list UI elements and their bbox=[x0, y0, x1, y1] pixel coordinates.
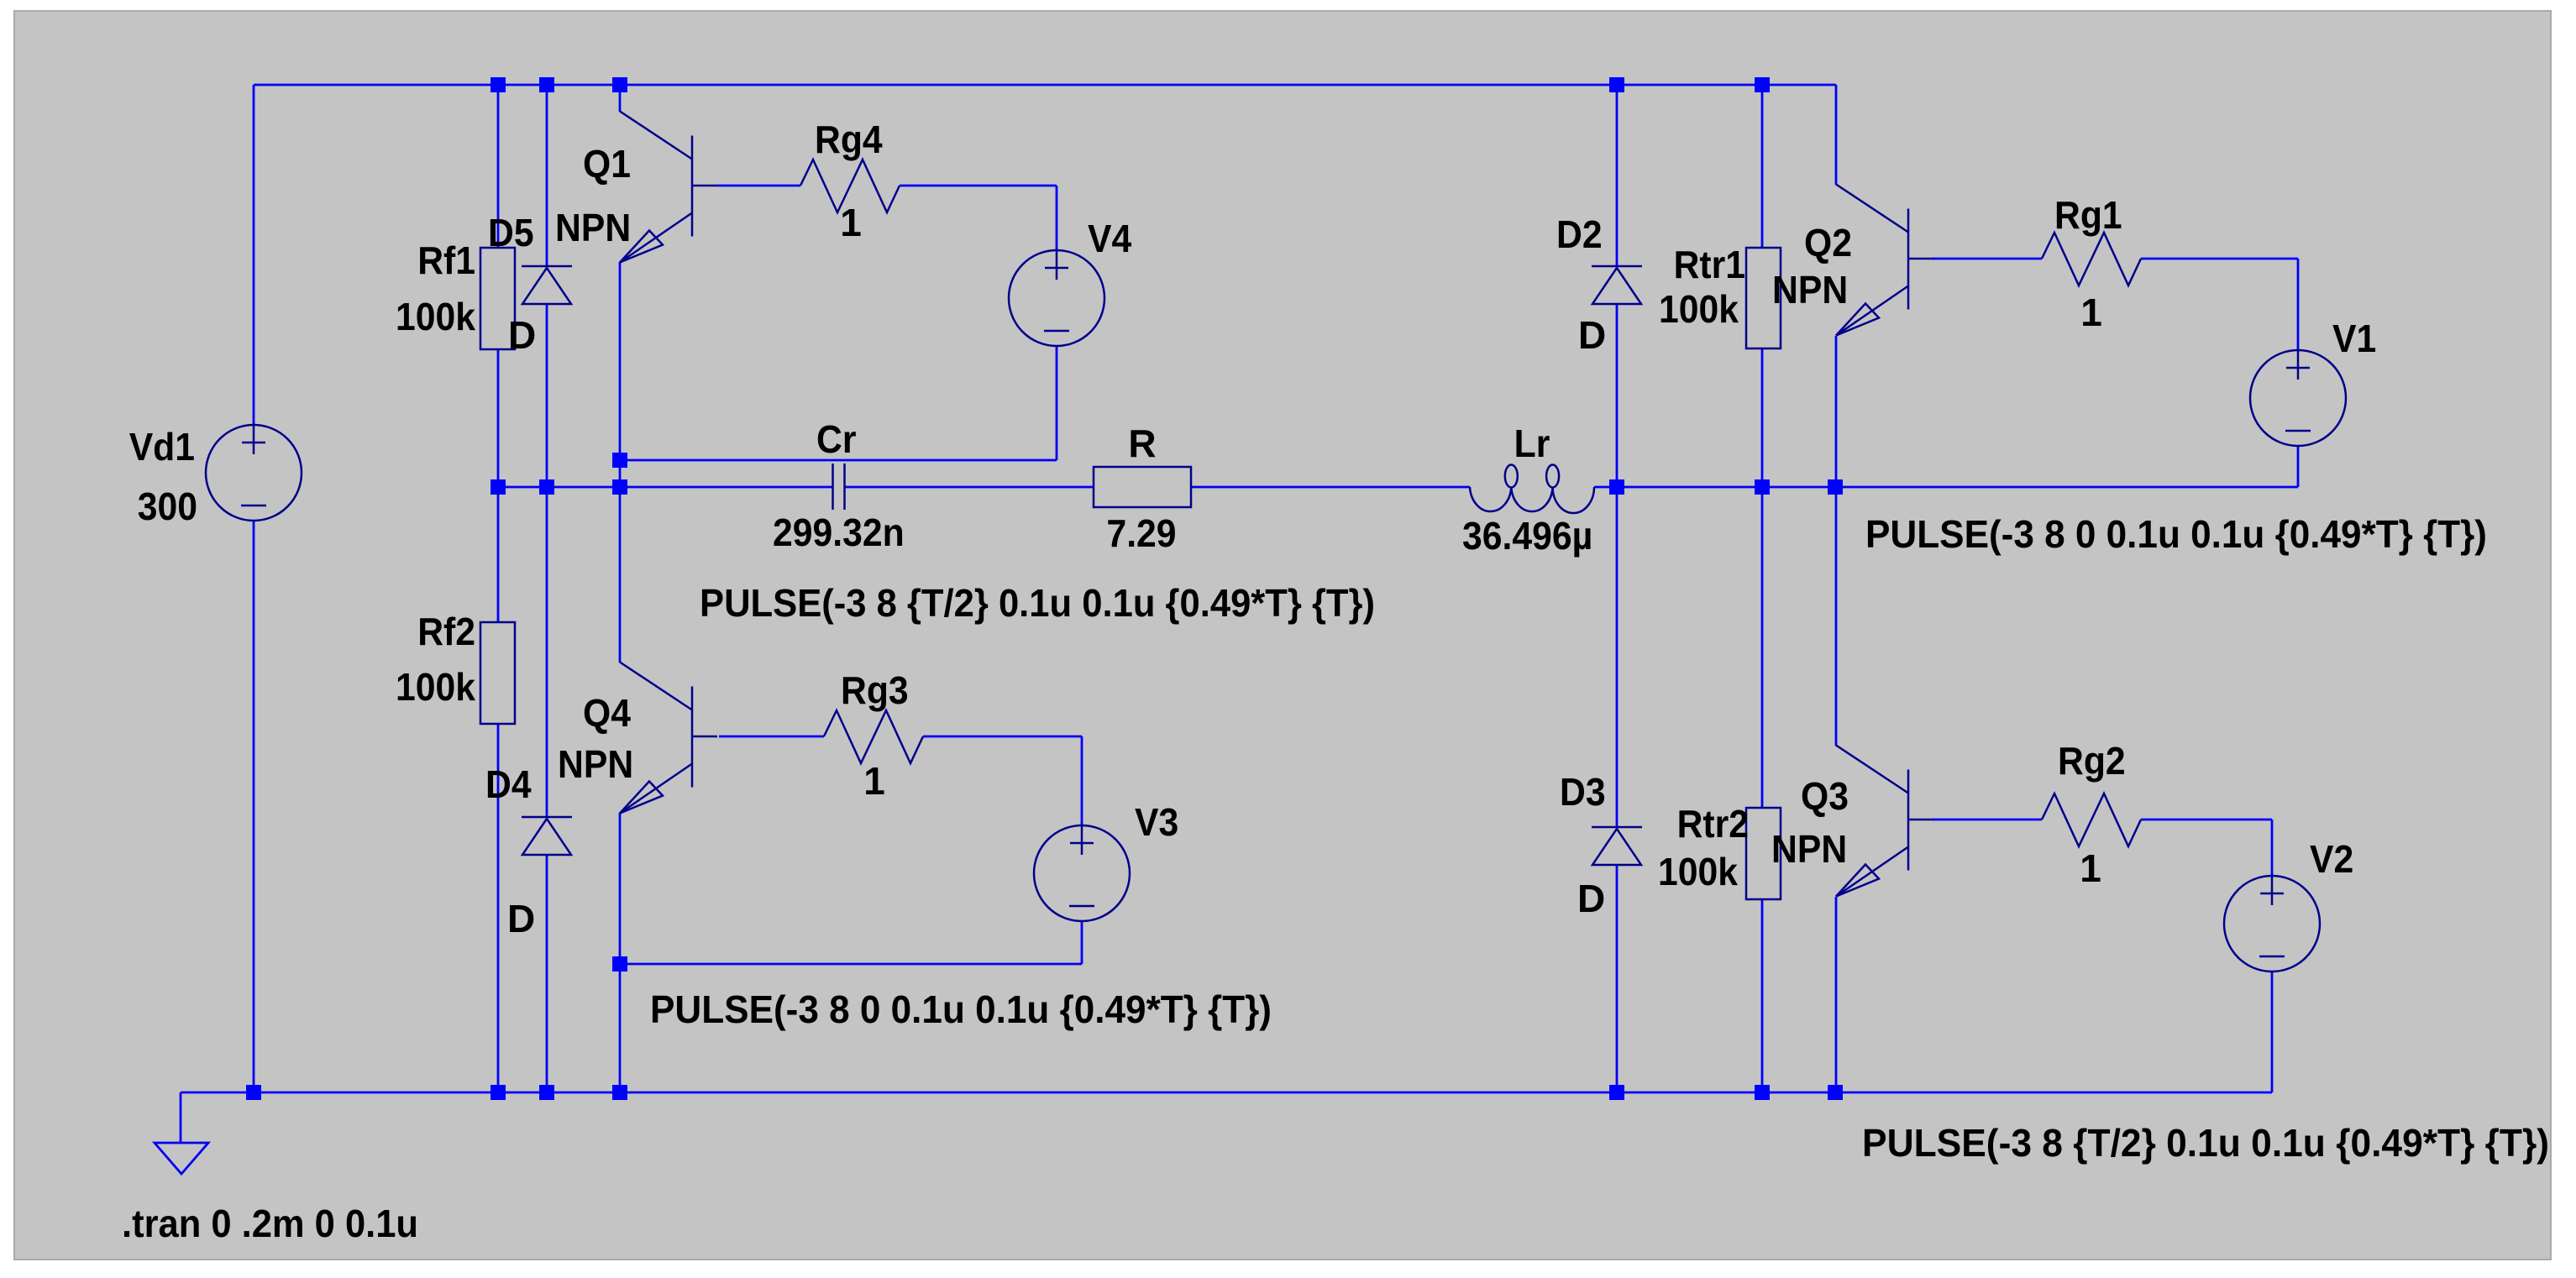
svg-text:R: R bbox=[1128, 422, 1156, 465]
svg-text:1: 1 bbox=[863, 759, 885, 803]
svg-text:Lr: Lr bbox=[1514, 422, 1550, 465]
svg-text:299.32n: 299.32n bbox=[773, 511, 905, 554]
svg-text:1: 1 bbox=[840, 201, 862, 244]
svg-text:V3: V3 bbox=[1135, 800, 1178, 844]
svg-text:V4: V4 bbox=[1088, 217, 1132, 260]
svg-text:100k: 100k bbox=[1659, 287, 1739, 331]
svg-text:Q1: Q1 bbox=[583, 142, 631, 186]
svg-text:Cr: Cr bbox=[816, 417, 857, 461]
svg-text:Rg4: Rg4 bbox=[815, 118, 883, 161]
svg-text:Rf1: Rf1 bbox=[417, 238, 475, 282]
svg-text:D: D bbox=[1578, 313, 1606, 357]
svg-text:NPN: NPN bbox=[555, 206, 631, 249]
svg-text:100k: 100k bbox=[396, 295, 475, 338]
svg-text:Vd1: Vd1 bbox=[129, 425, 195, 469]
svg-text:Rg3: Rg3 bbox=[841, 668, 909, 712]
svg-text:NPN: NPN bbox=[558, 742, 633, 786]
svg-text:NPN: NPN bbox=[1772, 268, 1848, 312]
svg-text:7.29: 7.29 bbox=[1106, 511, 1176, 555]
svg-text:300: 300 bbox=[138, 484, 197, 528]
svg-text:PULSE(-3 8 {T/2} 0.1u 0.1u {0.: PULSE(-3 8 {T/2} 0.1u 0.1u {0.49*T} {T}) bbox=[1862, 1121, 2549, 1165]
svg-text:D4: D4 bbox=[485, 762, 532, 806]
svg-text:Q3: Q3 bbox=[1801, 774, 1849, 818]
svg-text:D: D bbox=[507, 897, 535, 940]
svg-text:PULSE(-3 8 {T/2} 0.1u 0.1u {0.: PULSE(-3 8 {T/2} 0.1u 0.1u {0.49*T} {T}) bbox=[700, 581, 1375, 625]
svg-text:D: D bbox=[1577, 877, 1605, 920]
svg-text:100k: 100k bbox=[396, 665, 475, 709]
svg-text:Rg1: Rg1 bbox=[2054, 193, 2122, 237]
svg-text:Rg2: Rg2 bbox=[2058, 739, 2126, 783]
svg-text:PULSE(-3 8 0 0.1u 0.1u {0.49*T: PULSE(-3 8 0 0.1u 0.1u {0.49*T} {T}) bbox=[1865, 512, 2487, 556]
svg-text:Rf2: Rf2 bbox=[417, 610, 475, 653]
svg-text:.tran 0 .2m 0 0.1u: .tran 0 .2m 0 0.1u bbox=[122, 1202, 418, 1245]
svg-text:1: 1 bbox=[2080, 291, 2102, 334]
svg-text:PULSE(-3 8 0 0.1u 0.1u {0.49*T: PULSE(-3 8 0 0.1u 0.1u {0.49*T} {T}) bbox=[650, 987, 1272, 1031]
svg-text:Rtr1: Rtr1 bbox=[1674, 243, 1745, 286]
svg-text:D2: D2 bbox=[1556, 212, 1603, 256]
svg-text:D: D bbox=[508, 313, 536, 357]
svg-text:V1: V1 bbox=[2332, 317, 2376, 360]
svg-text:Q2: Q2 bbox=[1804, 221, 1852, 265]
svg-text:NPN: NPN bbox=[1771, 827, 1847, 871]
svg-text:Rtr2: Rtr2 bbox=[1677, 802, 1749, 846]
svg-text:1: 1 bbox=[2080, 846, 2101, 890]
svg-text:100k: 100k bbox=[1658, 850, 1738, 893]
svg-text:D3: D3 bbox=[1560, 770, 1606, 814]
svg-text:V2: V2 bbox=[2310, 837, 2353, 881]
svg-text:Q4: Q4 bbox=[583, 691, 631, 735]
svg-text:D5: D5 bbox=[488, 211, 534, 254]
svg-text:36.496µ: 36.496µ bbox=[1462, 514, 1592, 558]
